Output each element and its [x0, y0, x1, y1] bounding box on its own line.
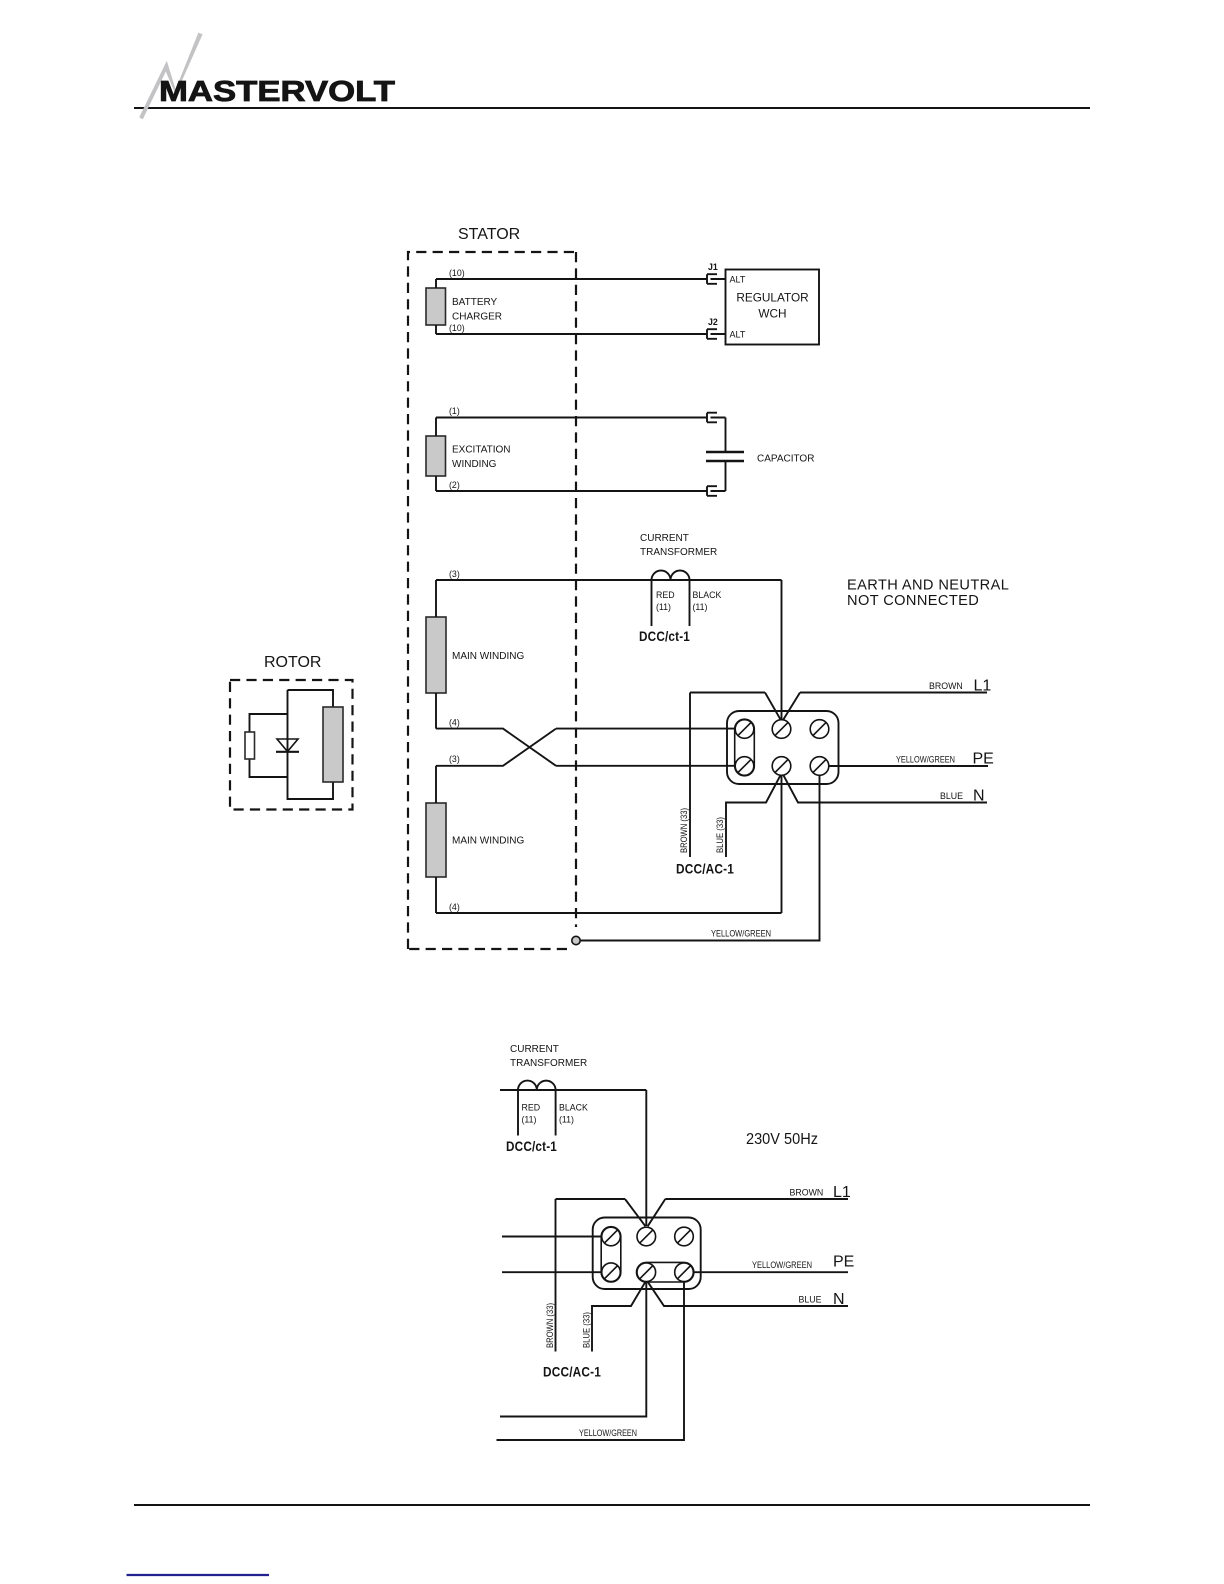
wire battery charger top to J1 [436, 278, 707, 280]
rotor winding [323, 707, 343, 782]
rotor resistor R1 [245, 732, 255, 759]
footer blue rule [127, 1574, 270, 1576]
svg-text:(11): (11) [559, 1115, 574, 1125]
svg-text:ALT: ALT [730, 275, 746, 285]
link stadium row2 PE-N (lower) [637, 1262, 694, 1282]
svg-text:CURRENT: CURRENT [510, 1044, 559, 1055]
wire N with inverted V entry (lower) [592, 1282, 848, 1352]
svg-text:WINDING: WINDING [452, 459, 497, 470]
svg-text:RED: RED [656, 590, 675, 600]
svg-text:PE: PE [973, 751, 994, 768]
terminal screws upper row [735, 720, 754, 739]
logo lightning bolt [139, 33, 202, 120]
svg-text:J1: J1 [708, 262, 718, 272]
wire PE-terminal down to yellow/green (upper) [580, 775, 820, 940]
svg-text:RED: RED [522, 1103, 541, 1113]
svg-text:(3): (3) [449, 754, 460, 764]
svg-text:(3): (3) [449, 569, 460, 579]
wire (3) winding2 to crossover [436, 729, 556, 766]
svg-text:YELLOW/GREEN: YELLOW/GREEN [752, 1260, 812, 1270]
connector J1 [707, 274, 726, 284]
excitation winding [426, 436, 446, 476]
svg-text:ALT: ALT [730, 330, 746, 340]
svg-text:YELLOW/GREEN: YELLOW/GREEN [711, 929, 771, 939]
header rule [134, 107, 1090, 109]
svg-text:MASTERVOLT: MASTERVOLT [159, 76, 396, 108]
svg-text:BROWN: BROWN [929, 681, 963, 691]
svg-text:DCC/AC-1: DCC/AC-1 [543, 1365, 601, 1380]
link stadium column1 [735, 719, 755, 776]
svg-text:J2: J2 [708, 317, 718, 327]
regulator U1 box [726, 270, 820, 345]
wire capacitor verticals [725, 418, 727, 492]
svg-text:BLUE: BLUE [799, 1295, 822, 1305]
svg-text:(4): (4) [449, 718, 460, 728]
stator dashed box [408, 252, 576, 949]
svg-text:N: N [973, 788, 985, 805]
wire (3) winding1 to CT and terminal [436, 580, 782, 720]
svg-text:NOT CONNECTED: NOT CONNECTED [847, 593, 979, 609]
svg-text:(1): (1) [449, 406, 460, 416]
generator wires into block (lower) [502, 1237, 602, 1273]
rotor diode D1 [277, 739, 298, 752]
svg-text:CAPACITOR: CAPACITOR [757, 454, 814, 465]
svg-text:YELLOW/GREEN: YELLOW/GREEN [579, 1428, 637, 1438]
svg-text:EARTH AND NEUTRAL: EARTH AND NEUTRAL [847, 578, 1009, 594]
svg-text:BROWN (33): BROWN (33) [545, 1303, 555, 1348]
svg-text:EXCITATION: EXCITATION [452, 445, 511, 456]
svg-text:REGULATOR: REGULATOR [736, 291, 808, 305]
wire excitation bottom [436, 490, 707, 492]
svg-text:BATTERY: BATTERY [452, 297, 498, 308]
wire (4) winding1 to crossover [436, 729, 556, 766]
wire (4) winding2 bottom to terminal [436, 775, 782, 913]
wire CT down to terminal (lower) [645, 1090, 647, 1226]
svg-text:YELLOW/GREEN: YELLOW/GREEN [896, 755, 955, 765]
connector excitation top [707, 413, 726, 423]
svg-text:N: N [833, 1291, 845, 1308]
svg-text:DCC/ct-1: DCC/ct-1 [639, 629, 690, 644]
wire N with inverted V entry (upper) [726, 775, 987, 857]
svg-text:(10): (10) [449, 268, 465, 278]
svg-text:BROWN (33): BROWN (33) [679, 808, 689, 853]
wire battery charger bottom to J2 [436, 333, 707, 335]
svg-text:BLUE (33): BLUE (33) [582, 1312, 592, 1348]
svg-text:CURRENT: CURRENT [640, 533, 689, 544]
svg-text:(2): (2) [449, 480, 460, 490]
wire excitation top [436, 417, 707, 419]
wire BROWN(33) down (lower) [555, 1199, 557, 1352]
wire PE (upper) [829, 765, 988, 767]
svg-text:(11): (11) [522, 1115, 537, 1125]
wire bottom-middle terminal down-left (lower) [500, 1282, 646, 1417]
svg-text:MAIN WINDING: MAIN WINDING [452, 651, 524, 662]
svg-text:PE: PE [833, 1254, 854, 1271]
svg-text:WCH: WCH [758, 307, 786, 321]
terminal block (upper) [727, 711, 839, 784]
svg-text:L1: L1 [833, 1184, 851, 1201]
svg-text:230V 50Hz: 230V 50Hz [746, 1131, 818, 1148]
svg-text:(4): (4) [449, 902, 460, 912]
svg-text:DCC/ct-1: DCC/ct-1 [506, 1139, 557, 1154]
svg-text:STATOR: STATOR [458, 226, 520, 243]
svg-text:TRANSFORMER: TRANSFORMER [510, 1058, 587, 1069]
svg-text:BLUE: BLUE [940, 791, 963, 801]
capacitor C1 [706, 452, 744, 461]
svg-text:BLACK: BLACK [559, 1103, 588, 1113]
wire yellow/green bottom (lower) [497, 1282, 685, 1441]
svg-text:BLACK: BLACK [693, 590, 722, 600]
main winding 1 [426, 617, 446, 693]
connector J2 [707, 329, 726, 339]
svg-text:ROTOR: ROTOR [264, 654, 321, 671]
wire L1 with V entry (lower) [556, 1199, 849, 1226]
rotor dashed box [230, 680, 353, 810]
wire BROWN(33) down to DCC/AC-1 (upper) [689, 693, 691, 858]
node: neutral star point [572, 936, 580, 944]
connector excitation bottom [707, 486, 726, 496]
svg-text:L1: L1 [974, 678, 992, 695]
wire PE (lower) [693, 1271, 848, 1273]
svg-text:BLUE (33): BLUE (33) [715, 817, 725, 853]
terminal block (lower) [593, 1218, 701, 1290]
svg-text:BROWN: BROWN [790, 1188, 824, 1198]
wire L1 with V entry (upper) [690, 693, 987, 720]
svg-text:(11): (11) [693, 602, 708, 612]
svg-text:TRANSFORMER: TRANSFORMER [640, 547, 717, 558]
svg-text:CHARGER: CHARGER [452, 312, 502, 323]
main winding 2 [426, 803, 446, 877]
wire battery charger stubs [435, 279, 437, 334]
svg-text:(11): (11) [656, 602, 671, 612]
svg-text:(10): (10) [449, 323, 465, 333]
wires after crossover into terminal block [556, 729, 735, 766]
svg-text:MAIN WINDING: MAIN WINDING [452, 836, 524, 847]
link stadium column1 (lower) [601, 1227, 621, 1282]
svg-text:DCC/AC-1: DCC/AC-1 [676, 862, 734, 877]
rotor loop wires [250, 690, 334, 799]
footer rule [134, 1504, 1090, 1506]
battery charger winding [426, 288, 446, 325]
